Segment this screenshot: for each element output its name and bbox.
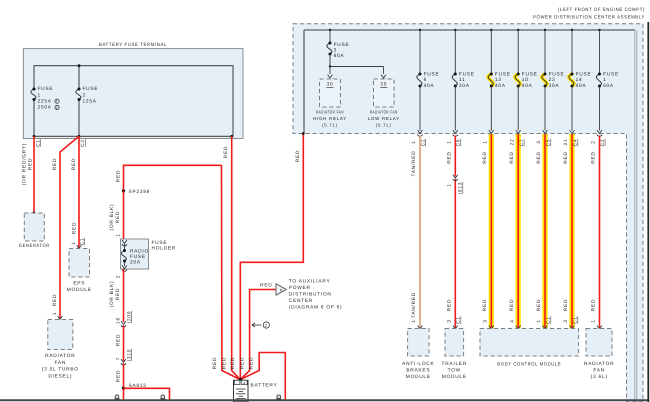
svg-text:C1: C1 [573, 316, 579, 324]
svg-text:2: 2 [591, 140, 597, 143]
svg-text:RED: RED [563, 299, 569, 311]
svg-text:RED: RED [52, 294, 58, 306]
svg-text:(DIAGRAM 6 OF 6): (DIAGRAM 6 OF 6) [289, 305, 343, 311]
svg-text:RED: RED [27, 158, 33, 170]
svg-text:C4: C4 [573, 139, 579, 147]
svg-text:C2: C2 [80, 139, 86, 147]
wire (OR BLK) RED to I200 [123, 269, 125, 322]
connector arrow fuse 6 output [418, 130, 423, 133]
connector arrow radiator fan 3.6L [597, 326, 602, 329]
svg-text:RED: RED [509, 299, 515, 311]
svg-text:RED: RED [230, 357, 236, 369]
svg-text:POWER DISTRIBUTION CENTER ASSE: POWER DISTRIBUTION CENTER ASSEMBLY [533, 14, 645, 20]
svg-text:(5.7L): (5.7L) [322, 122, 338, 127]
svg-text:(3.6L): (3.6L) [591, 374, 608, 380]
svg-text:C1: C1 [456, 316, 462, 324]
svg-text:BATTERY FUSE TERMINAL: BATTERY FUSE TERMINAL [99, 42, 167, 48]
fuse 23 30A [544, 29, 546, 31]
svg-text:ANTI-LOCK: ANTI-LOCK [402, 361, 434, 367]
connector arrow fuse 14 output [570, 130, 575, 133]
relay contact radiator fan high relay [328, 75, 333, 78]
right frame line [647, 22, 649, 402]
svg-text:16: 16 [115, 317, 121, 324]
wire RED fuse1 to radiator fan 3.6L [599, 136, 601, 329]
body control module [480, 329, 579, 357]
svg-text:FUSE: FUSE [549, 71, 565, 77]
svg-text:40A: 40A [522, 83, 533, 89]
EPS module [69, 249, 90, 278]
svg-text:10: 10 [522, 77, 529, 83]
connector arrow BCM pin 3 [489, 326, 494, 329]
svg-text:30: 30 [327, 81, 334, 87]
svg-text:TRAILER: TRAILER [442, 361, 468, 367]
fuse 10 40A [517, 29, 519, 31]
svg-text:C5: C5 [546, 139, 552, 147]
connector arrow into fuse holder [122, 240, 127, 243]
svg-text:MODULE: MODULE [442, 374, 467, 380]
svg-text:FAN: FAN [593, 368, 605, 374]
svg-text:CENTER: CENTER [289, 298, 313, 304]
svg-text:RED: RED [115, 170, 121, 182]
note arrow circled 2 [252, 324, 262, 326]
svg-text:1: 1 [115, 233, 121, 236]
PDC assembly box [293, 24, 643, 402]
svg-text:POWER: POWER [289, 285, 311, 291]
wire RED fuse to body control module pin 1 [542, 134, 547, 329]
svg-text:(LEFT FRONT OF ENGINE COMPT): (LEFT FRONT OF ENGINE COMPT) [558, 7, 645, 13]
svg-text:(OR BLK): (OR BLK) [109, 281, 115, 308]
svg-text:FUSE: FUSE [603, 71, 619, 77]
svg-text:(OR RED/GRY): (OR RED/GRY) [21, 143, 27, 186]
wire RED battery to radio fuse (horizontal) [124, 165, 222, 191]
svg-text:TOW: TOW [448, 368, 461, 374]
svg-text:FUSE: FUSE [130, 254, 146, 260]
svg-text:RED: RED [563, 151, 569, 163]
node BFT out C2 [78, 135, 81, 138]
svg-text:RED: RED [115, 334, 121, 346]
svg-text:2: 2 [115, 275, 121, 278]
svg-text:4: 4 [509, 319, 515, 322]
fuse 11 30A [454, 29, 456, 31]
generator [24, 213, 44, 241]
svg-text:RED: RED [221, 357, 227, 369]
svg-text:I913: I913 [458, 182, 464, 194]
splice SP2398 [122, 189, 125, 192]
svg-text:2: 2 [265, 323, 268, 328]
wire SA933 to ground left [123, 388, 125, 400]
svg-text:14: 14 [576, 77, 583, 83]
svg-text:1: 1 [71, 241, 77, 244]
fuse 6 40A [419, 29, 421, 31]
svg-text:FUSE: FUSE [83, 86, 99, 92]
svg-text:BODY CONTROL MODULE: BODY CONTROL MODULE [497, 361, 561, 367]
svg-text:60A: 60A [603, 83, 614, 89]
wire RED fuse11 to trailer tow module [454, 136, 456, 177]
svg-text:RED: RED [239, 357, 245, 369]
svg-text:3: 3 [447, 319, 453, 322]
svg-text:2: 2 [56, 106, 59, 110]
svg-text:(3.0L TURBO: (3.0L TURBO [42, 367, 79, 373]
anti-lock brakes module [408, 329, 429, 357]
svg-text:RED: RED [223, 146, 229, 158]
svg-text:RADIATOR: RADIATOR [584, 361, 614, 367]
svg-text:FUSE: FUSE [424, 71, 440, 77]
svg-text:GENERATOR: GENERATOR [19, 243, 50, 249]
svg-text:3: 3 [334, 48, 337, 54]
off-page arrow A (to auxiliary PDC) [276, 284, 286, 295]
svg-text:RED: RED [295, 150, 301, 162]
connector arrow trailer tow module [453, 326, 458, 329]
svg-text:40A: 40A [424, 83, 435, 89]
connector arrow BCM pin 1 [543, 326, 548, 329]
svg-text:C1: C1 [546, 316, 552, 324]
svg-text:1: 1 [411, 140, 417, 143]
svg-text:60A: 60A [334, 53, 345, 59]
svg-text:RED: RED [447, 299, 453, 311]
svg-text:FUSE: FUSE [334, 42, 350, 48]
svg-text:I200: I200 [126, 311, 132, 323]
svg-text:RED: RED [536, 151, 542, 163]
radiator fan (3.6L) [586, 329, 612, 357]
svg-text:RED: RED [52, 158, 58, 170]
svg-text:RED: RED [71, 222, 77, 234]
wire (OR BLK) RED to fuse holder [123, 191, 125, 239]
svg-text:6: 6 [424, 77, 427, 83]
wire RED fuse to body control module pin 4 [516, 134, 521, 329]
svg-text:SP2398: SP2398 [129, 189, 151, 195]
fuse 14 40A [571, 29, 573, 31]
svg-text:RADIO: RADIO [130, 248, 149, 254]
svg-text:RED: RED [536, 299, 542, 311]
wire fuse2 branch vertical [78, 66, 80, 89]
inline connector I913 [453, 175, 458, 178]
svg-text:3: 3 [563, 319, 569, 322]
svg-text:EPS: EPS [73, 280, 85, 286]
wire W3 PDC feed [240, 134, 303, 380]
svg-text:RED: RED [482, 299, 488, 311]
wire SA933 to ground right [124, 388, 170, 400]
svg-text:1: 1 [483, 140, 489, 143]
fuse 2 125A [76, 89, 81, 100]
svg-text:DIESEL): DIESEL) [48, 373, 72, 379]
fuse 12 40A [490, 29, 492, 31]
connector arrow fuse 12 output [489, 130, 494, 133]
trailer tow module [445, 329, 464, 357]
svg-text:2: 2 [83, 92, 86, 98]
svg-text:RED: RED [591, 299, 597, 311]
wire W4 to auxiliary PDC [240, 290, 276, 380]
svg-text:C2: C2 [600, 139, 606, 147]
fuse 1 225A/250A [33, 88, 35, 100]
svg-text:(OR BLK): (OR BLK) [109, 204, 115, 231]
svg-text:RED: RED [447, 151, 453, 163]
wire RED to radiator fan 3.0L [60, 136, 79, 319]
svg-text:RADIATOR: RADIATOR [45, 353, 75, 359]
svg-text:LOW RELAY: LOW RELAY [368, 116, 400, 121]
svg-text:(5.7L): (5.7L) [376, 122, 392, 127]
svg-text:1: 1 [603, 77, 606, 83]
svg-text:23: 23 [549, 77, 556, 83]
svg-text:+: + [243, 380, 246, 385]
svg-text:1: 1 [411, 319, 417, 322]
wire RED fuse to body control module pin 3 [489, 134, 494, 329]
svg-text:BATTERY: BATTERY [251, 382, 278, 388]
svg-text:1: 1 [52, 312, 58, 315]
node battery positive [239, 378, 243, 382]
node PDC feed out [302, 132, 305, 135]
svg-text:11: 11 [459, 77, 465, 83]
splice SA933 [122, 387, 125, 390]
connector arrow fuse 10 output [516, 130, 521, 133]
connector arrow fuse 1 output [597, 130, 602, 133]
svg-text:I310: I310 [126, 349, 132, 361]
node BFT out right [230, 135, 233, 138]
wire relay branch [329, 54, 331, 67]
wire RED to EPS module [78, 136, 80, 248]
connector arrow radiator fan [58, 316, 63, 319]
relay contact radiator fan low relay [381, 75, 386, 78]
svg-text:RED: RED [509, 151, 515, 163]
svg-text:RED: RED [115, 211, 121, 223]
connector arrow BCM pin 4 [516, 326, 521, 329]
bottom frame line [0, 399, 649, 401]
radiator fan low relay [374, 79, 395, 107]
svg-text:1: 1 [536, 319, 542, 322]
radiator fan (3.0L turbo diesel) [48, 320, 73, 350]
radiator fan high relay [320, 79, 341, 107]
svg-text:TAN/RED: TAN/RED [411, 151, 417, 177]
svg-text:250A: 250A [38, 105, 52, 111]
svg-text:RED: RED [249, 357, 255, 369]
svg-text:FUSE: FUSE [495, 71, 511, 77]
svg-text:1: 1 [447, 140, 453, 143]
svg-text:12: 12 [495, 77, 502, 83]
wire W1 radio feed to battery [222, 165, 241, 379]
wire TAN/RED fuse6 to anti-lock brakes module [419, 136, 421, 329]
connector arrow out of fuse holder [122, 265, 127, 268]
connector arrow BCM pin 3 [570, 326, 575, 329]
svg-text:30A: 30A [459, 83, 470, 89]
svg-text:HIGH RELAY: HIGH RELAY [313, 116, 347, 121]
svg-text:FUSE: FUSE [152, 240, 168, 246]
wire W2 battery fuse terminal feed [232, 136, 241, 379]
svg-text:RED: RED [115, 288, 121, 300]
svg-text:RED: RED [482, 151, 488, 163]
svg-text:C1: C1 [35, 139, 41, 147]
svg-text:RED: RED [71, 158, 77, 170]
svg-text:TAN/RED: TAN/RED [411, 292, 417, 318]
svg-text:FAN: FAN [55, 360, 67, 366]
svg-text:C2: C2 [420, 139, 426, 147]
svg-text:A: A [280, 287, 284, 292]
svg-text:C7: C7 [519, 139, 525, 147]
ground eyelet right [277, 395, 281, 399]
connector arrow fuse 23 output [543, 130, 548, 133]
svg-text:FUSE: FUSE [576, 71, 592, 77]
battery fuse terminal bus bar [34, 66, 233, 137]
connector arrow EPS [77, 245, 82, 248]
svg-text:RED: RED [260, 283, 272, 289]
svg-text:BRAKES: BRAKES [406, 368, 430, 374]
svg-text:FUSE: FUSE [522, 71, 538, 77]
svg-text:RED: RED [115, 370, 121, 382]
svg-text:20A: 20A [130, 259, 141, 265]
svg-text:MODULE: MODULE [67, 287, 92, 293]
svg-text:FUSE: FUSE [38, 86, 54, 92]
svg-text:125A: 125A [83, 99, 97, 105]
svg-text:30: 30 [380, 81, 387, 87]
battery fuse terminal box [23, 49, 243, 139]
svg-text:1: 1 [38, 92, 41, 98]
svg-text:1: 1 [447, 183, 453, 186]
wire W5 battery to ground eyelet [240, 353, 285, 401]
svg-text:40A: 40A [576, 83, 587, 89]
svg-text:RED: RED [591, 151, 597, 163]
svg-text:C6: C6 [456, 139, 462, 147]
fuse 3 60A [329, 29, 331, 31]
svg-text:1: 1 [591, 319, 597, 322]
connector arrow fuse 11 output [453, 130, 458, 133]
fuse 1 60A [598, 29, 600, 31]
PDC bus bar [304, 29, 635, 31]
wire RED fuse to body control module pin 3 [569, 134, 574, 329]
svg-text:7: 7 [115, 357, 121, 360]
ground eyelet left [115, 395, 119, 399]
svg-text:FUSE: FUSE [459, 71, 475, 77]
svg-text:40A: 40A [495, 83, 506, 89]
svg-text:TO AUXILIARY: TO AUXILIARY [289, 278, 331, 284]
svg-text:DISTRIBUTION: DISTRIBUTION [289, 292, 332, 298]
svg-text:225A: 225A [38, 99, 52, 105]
svg-text:HOLDER: HOLDER [152, 246, 177, 252]
connector arrow anti-lock module [418, 326, 423, 329]
wire generator feed (OR RED/GRY) RED [33, 136, 35, 213]
ground eyelet mid [161, 395, 165, 399]
svg-text:3: 3 [483, 319, 489, 322]
wire RED to splice SA933 [123, 363, 125, 388]
svg-text:RADIATOR FAN: RADIATOR FAN [316, 110, 344, 115]
fuse holder box [121, 239, 149, 269]
svg-text:21: 21 [563, 139, 569, 146]
svg-text:C1: C1 [80, 238, 86, 246]
svg-text:3: 3 [536, 140, 542, 143]
node bus tap fuse2 [78, 64, 81, 67]
svg-text:RADIATOR FAN: RADIATOR FAN [370, 110, 398, 115]
node BFT out C1 [33, 135, 36, 138]
svg-text:RED: RED [212, 357, 218, 369]
svg-text:1: 1 [56, 100, 59, 104]
battery [234, 380, 249, 402]
svg-text:30A: 30A [549, 83, 560, 89]
svg-text:22: 22 [509, 139, 515, 146]
node generator stud [33, 212, 36, 215]
wire RED to I310 [123, 325, 125, 361]
radio fuse 20A [124, 244, 126, 251]
svg-text:MODULE: MODULE [406, 374, 431, 380]
